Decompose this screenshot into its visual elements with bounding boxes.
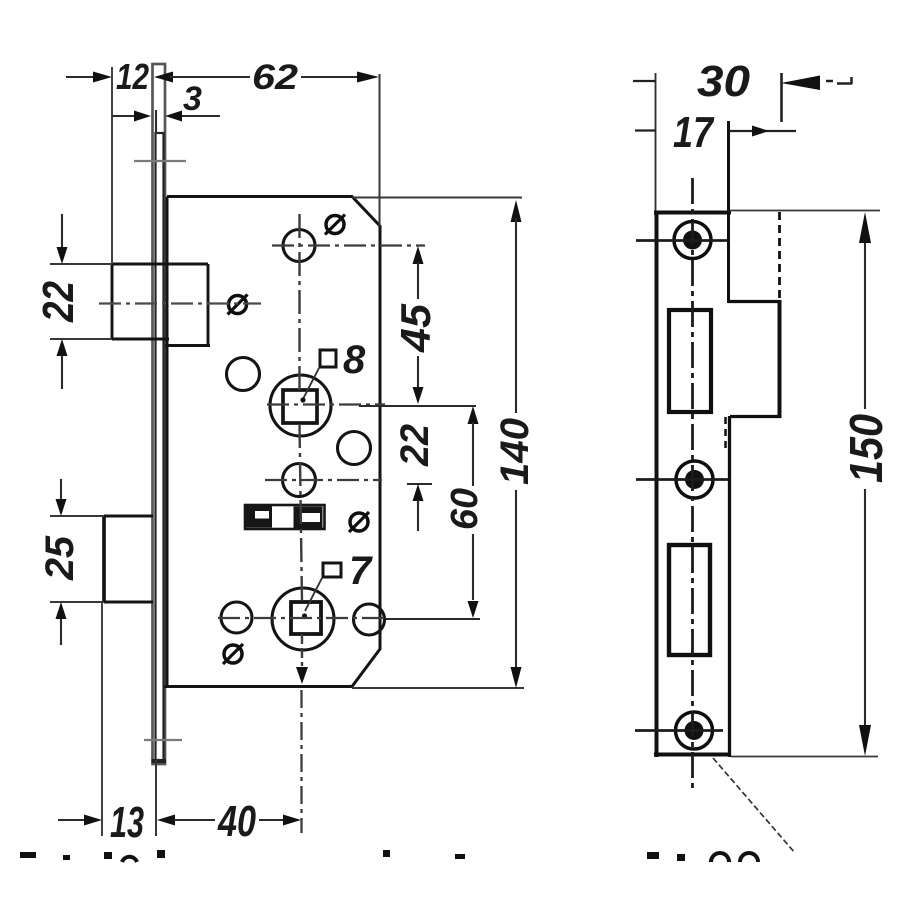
faceplate outer (Stulp): [153, 64, 166, 764]
tick 30 left: [633, 80, 656, 82]
spindle hub lower circle: [272, 588, 334, 650]
centerline arrow at case bottom: [296, 667, 308, 684]
tab dashed edge: [778, 212, 781, 301]
hole mid-right: [338, 432, 371, 465]
faceplate tick top: [134, 160, 186, 162]
hole top: [283, 230, 315, 262]
hole bottom-left: [221, 602, 252, 633]
strike plate bottom edge: [654, 753, 731, 757]
slider part: [245, 505, 325, 529]
hole mid-left: [227, 358, 260, 391]
spindle hub upper square: [283, 390, 317, 423]
centerline hub upper: [267, 403, 385, 405]
hole middle: [283, 464, 316, 497]
deadbolt head: [104, 516, 153, 602]
dim 22 left: [34, 214, 83, 389]
deadbolt extension lines left: [50, 515, 104, 517]
tab step upper: [728, 300, 781, 303]
svg-text:8: 8: [343, 338, 366, 382]
dim 13 and 40: [58, 760, 301, 847]
tab right edge: [778, 300, 782, 418]
fold line dashes below: [724, 417, 727, 449]
strike plate left edge: [655, 211, 659, 757]
dim 12: [66, 56, 149, 264]
svg-text:7: 7: [349, 549, 373, 593]
svg-text:62: 62: [252, 58, 299, 97]
hole bottom-right: [354, 604, 385, 635]
deadbolt cutout: [669, 545, 710, 655]
diameter symbol top: [325, 215, 345, 235]
centerline vertical below case: [300, 690, 302, 833]
latch cutout: [669, 310, 711, 412]
dim 25 left: [38, 479, 82, 645]
strike plate top edge: [654, 211, 731, 215]
keep fold line upper: [727, 121, 730, 303]
square-7 marker: [323, 563, 341, 577]
svg-text:22: 22: [34, 281, 83, 323]
centerline latch: [99, 302, 261, 304]
screw hole top: [674, 222, 711, 259]
spindle hub upper circle: [270, 375, 331, 436]
bottom edge thin extension to 140 dim: [352, 687, 524, 689]
extension line below deadbolt to 13 dim: [101, 602, 103, 836]
centerline middle hole: [265, 479, 382, 481]
centerline vertical lower: [301, 634, 303, 666]
extension line above plate left: [655, 73, 657, 212]
tick 17 left: [635, 129, 656, 131]
svg-text:12: 12: [116, 56, 149, 97]
svg-text:17: 17: [673, 108, 715, 157]
centerline vertical strike plate: [691, 178, 694, 788]
centerline screw top: [636, 239, 729, 242]
strike plate right edge lower: [728, 416, 731, 757]
leader line to caption: [713, 758, 795, 853]
dim 30 tick right: [780, 73, 783, 122]
lock case outline: [164, 197, 380, 687]
svg-text:45: 45: [392, 303, 439, 353]
leader for 7: [305, 578, 322, 611]
thin line bottom to 150 ext: [731, 756, 878, 758]
dim 150: [840, 212, 892, 756]
svg-text:3: 3: [183, 80, 202, 118]
centerline hub lower: [218, 617, 385, 619]
svg-text:60: 60: [444, 488, 486, 530]
centerline vertical upper: [298, 214, 300, 390]
latch bolt head: [112, 264, 210, 346]
square-8 marker: [320, 350, 336, 367]
svg-text:22: 22: [393, 424, 437, 467]
screw hole bottom: [676, 712, 713, 749]
dim 140: [493, 200, 537, 688]
spindle hub lower square: [291, 602, 321, 634]
faceplate bottom cap: [152, 759, 167, 763]
svg-text:140: 140: [493, 418, 537, 485]
top edge thin extension to 140 dim: [352, 197, 522, 199]
dim 22 right: [393, 424, 437, 531]
svg-text:30: 30: [697, 57, 751, 106]
lock case left edge: [166, 197, 169, 687]
screw hole middle: [676, 461, 713, 498]
thin line top to 150 ext: [729, 210, 880, 212]
cropped caption marks at bottom: [20, 850, 758, 862]
dim 3: [112, 80, 220, 134]
deadbolt front edge: [102, 515, 106, 603]
dim 60: [359, 406, 486, 619]
leader for 8: [303, 368, 319, 399]
diameter symbol middle: [349, 512, 369, 532]
latch extension lines left: [50, 263, 112, 265]
svg-text:150: 150: [840, 414, 892, 483]
dim 45: [392, 246, 439, 404]
dim 30 dash-dot: [826, 80, 833, 83]
diameter symbol bottom: [223, 644, 243, 664]
diameter symbol latch: [228, 295, 248, 315]
dim 30 arrow: [781, 76, 820, 91]
svg-text:13: 13: [110, 798, 144, 847]
svg-text:25: 25: [38, 535, 82, 581]
dim 17 line and arrow: [728, 130, 796, 132]
centerline screw bottom: [635, 729, 723, 732]
centerline vertical middle: [300, 424, 303, 602]
faceplate inner plate: [156, 133, 164, 760]
faceplate tick bottom: [144, 739, 182, 741]
svg-text:40: 40: [217, 797, 256, 846]
dim 62: [154, 58, 380, 226]
centerline screw middle: [636, 478, 729, 481]
tab step lower: [730, 415, 781, 418]
centerline top hole: [272, 244, 425, 246]
